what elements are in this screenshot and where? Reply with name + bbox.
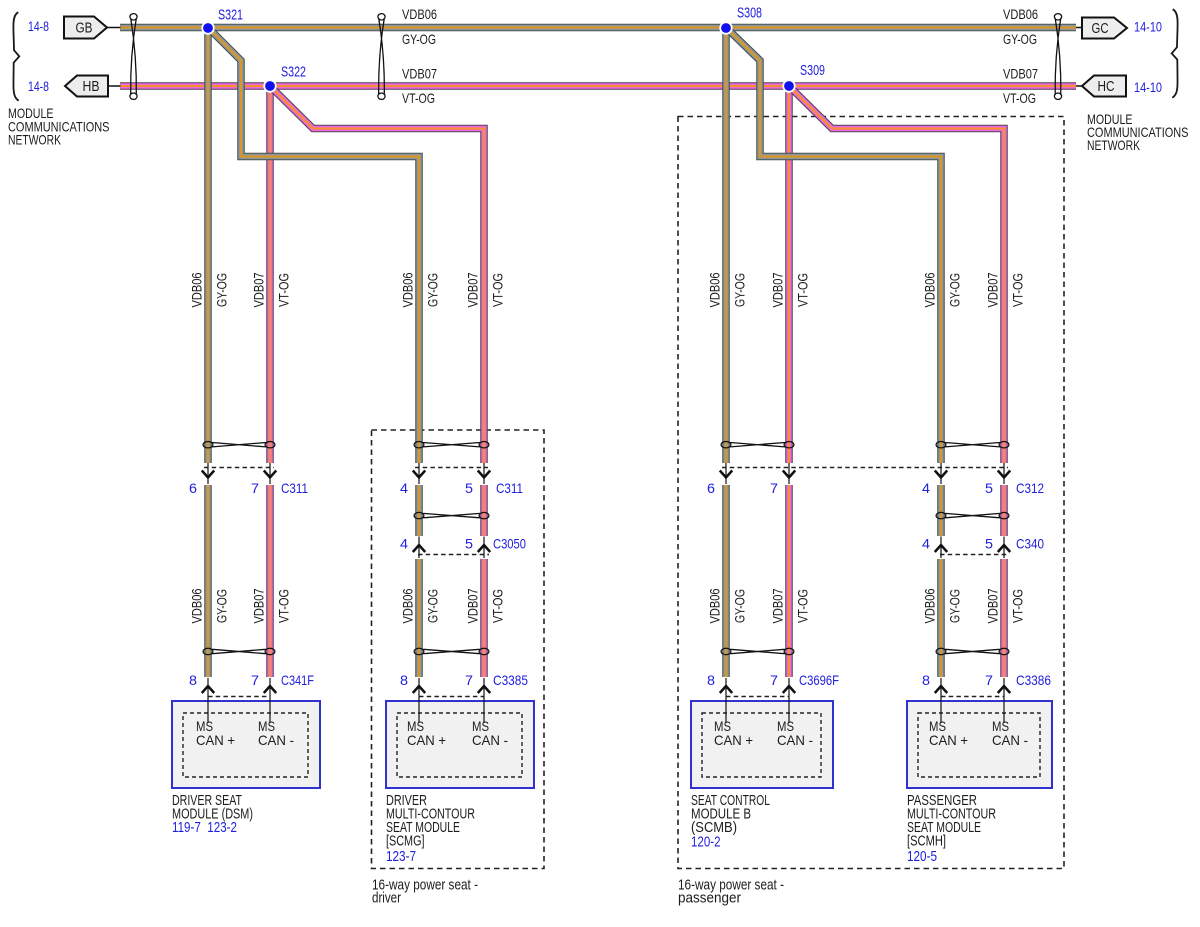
svg-text:driver: driver xyxy=(372,891,401,907)
svg-text:14-10: 14-10 xyxy=(1134,19,1162,35)
svg-text:GY-OG: GY-OG xyxy=(213,273,229,307)
svg-text:GY-OG: GY-OG xyxy=(424,589,440,623)
svg-text:120-5: 120-5 xyxy=(907,849,937,865)
svg-text:4: 4 xyxy=(400,480,408,496)
svg-text:GY-OG: GY-OG xyxy=(731,273,747,307)
svg-text:C3696F: C3696F xyxy=(799,672,839,688)
svg-text:VT-OG: VT-OG xyxy=(489,273,505,307)
svg-text:7: 7 xyxy=(251,672,259,688)
svg-text:GY-OG: GY-OG xyxy=(424,273,440,307)
svg-text:CAN +: CAN + xyxy=(714,732,753,748)
svg-text:VDB07: VDB07 xyxy=(464,588,480,623)
svg-text:119-7 123-2: 119-7 123-2 xyxy=(172,820,237,836)
svg-text:7: 7 xyxy=(985,672,993,688)
svg-text:HB: HB xyxy=(83,79,100,95)
svg-text:GB: GB xyxy=(76,21,93,37)
svg-text:CAN +: CAN + xyxy=(929,732,968,748)
svg-text:VDB06: VDB06 xyxy=(399,588,415,623)
svg-text:8: 8 xyxy=(400,672,408,688)
svg-text:C3050: C3050 xyxy=(493,536,526,552)
svg-text:VDB07: VDB07 xyxy=(769,588,785,623)
svg-text:GY-OG: GY-OG xyxy=(402,31,436,47)
svg-text:GY-OG: GY-OG xyxy=(213,589,229,623)
svg-text:VT-OG: VT-OG xyxy=(1009,273,1025,307)
svg-text:VDB06: VDB06 xyxy=(188,272,204,307)
svg-text:VT-OG: VT-OG xyxy=(1003,90,1036,106)
svg-text:8: 8 xyxy=(922,672,930,688)
svg-text:VDB06: VDB06 xyxy=(921,272,937,307)
svg-text:[SCMG]: [SCMG] xyxy=(386,834,425,850)
svg-text:NETWORK: NETWORK xyxy=(8,133,61,148)
svg-text:VDB07: VDB07 xyxy=(1003,66,1038,82)
svg-text:5: 5 xyxy=(465,536,473,552)
svg-text:4: 4 xyxy=(922,536,930,552)
svg-text:7: 7 xyxy=(770,480,778,496)
svg-text:GY-OG: GY-OG xyxy=(946,589,962,623)
svg-text:C312: C312 xyxy=(1016,480,1044,496)
svg-text:VDB06: VDB06 xyxy=(706,272,722,307)
svg-text:VDB07: VDB07 xyxy=(984,272,1000,307)
svg-text:4: 4 xyxy=(922,480,930,496)
svg-text:7: 7 xyxy=(251,480,259,496)
svg-text:7: 7 xyxy=(465,672,473,688)
svg-text:VDB06: VDB06 xyxy=(706,588,722,623)
svg-text:120-2: 120-2 xyxy=(691,835,721,851)
svg-text:5: 5 xyxy=(465,480,473,496)
svg-text:VDB07: VDB07 xyxy=(250,272,266,307)
svg-text:VDB07: VDB07 xyxy=(984,588,1000,623)
svg-text:7: 7 xyxy=(770,672,778,688)
svg-text:14-8: 14-8 xyxy=(28,18,49,34)
svg-text:GY-OG: GY-OG xyxy=(731,589,747,623)
svg-text:VT-OG: VT-OG xyxy=(794,273,810,307)
svg-text:CAN -: CAN - xyxy=(992,732,1028,748)
svg-text:5: 5 xyxy=(985,480,993,496)
svg-text:CAN -: CAN - xyxy=(777,732,813,748)
svg-text:CAN -: CAN - xyxy=(472,732,508,748)
svg-text:NETWORK: NETWORK xyxy=(1087,138,1140,153)
svg-text:GC: GC xyxy=(1092,21,1109,37)
svg-text:VDB07: VDB07 xyxy=(769,272,785,307)
svg-text:VDB07: VDB07 xyxy=(464,272,480,307)
svg-text:S321: S321 xyxy=(218,8,243,24)
svg-text:[SCMH]: [SCMH] xyxy=(907,834,946,850)
svg-text:CAN +: CAN + xyxy=(407,732,446,748)
svg-text:8: 8 xyxy=(707,672,715,688)
svg-text:GY-OG: GY-OG xyxy=(1003,31,1037,47)
svg-text:passenger: passenger xyxy=(678,891,741,907)
svg-text:VT-OG: VT-OG xyxy=(402,90,435,106)
svg-text:CAN +: CAN + xyxy=(196,732,235,748)
svg-text:GY-OG: GY-OG xyxy=(946,273,962,307)
svg-text:C341F: C341F xyxy=(281,672,314,688)
svg-text:VDB07: VDB07 xyxy=(250,588,266,623)
svg-text:VT-OG: VT-OG xyxy=(1009,589,1025,623)
svg-text:VT-OG: VT-OG xyxy=(794,589,810,623)
svg-text:C3385: C3385 xyxy=(493,672,528,688)
svg-text:C311: C311 xyxy=(281,480,308,496)
svg-text:VT-OG: VT-OG xyxy=(275,273,291,307)
svg-text:VDB06: VDB06 xyxy=(399,272,415,307)
svg-text:VT-OG: VT-OG xyxy=(489,589,505,623)
svg-text:S309: S309 xyxy=(800,63,825,79)
svg-text:S322: S322 xyxy=(281,65,306,81)
svg-text:C340: C340 xyxy=(1016,536,1044,552)
svg-text:8: 8 xyxy=(189,672,197,688)
svg-text:5: 5 xyxy=(985,536,993,552)
svg-text:14-10: 14-10 xyxy=(1134,79,1162,95)
svg-text:VDB06: VDB06 xyxy=(188,588,204,623)
svg-text:VDB06: VDB06 xyxy=(402,6,437,22)
svg-text:VT-OG: VT-OG xyxy=(275,589,291,623)
svg-text:CAN -: CAN - xyxy=(258,732,294,748)
svg-text:6: 6 xyxy=(707,480,715,496)
svg-text:VDB07: VDB07 xyxy=(402,66,437,82)
svg-text:HC: HC xyxy=(1098,79,1115,95)
svg-text:VDB06: VDB06 xyxy=(921,588,937,623)
svg-text:123-7: 123-7 xyxy=(386,849,416,865)
svg-text:6: 6 xyxy=(189,480,197,496)
svg-text:4: 4 xyxy=(400,536,408,552)
svg-text:14-8: 14-8 xyxy=(28,78,49,94)
svg-text:C3386: C3386 xyxy=(1016,672,1051,688)
svg-text:VDB06: VDB06 xyxy=(1003,6,1038,22)
svg-text:C311: C311 xyxy=(496,480,523,496)
svg-text:S308: S308 xyxy=(737,6,762,22)
